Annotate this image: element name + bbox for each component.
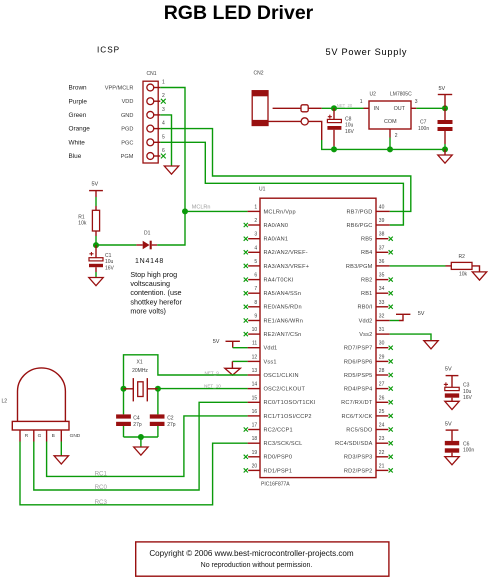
svg-text:14: 14	[252, 382, 258, 388]
svg-text:10k: 10k	[78, 221, 87, 227]
capacitor C4 plate 2	[116, 422, 131, 426]
U1 pin 11 number	[252, 341, 257, 347]
wire color label Green	[69, 112, 87, 119]
svg-text:4: 4	[254, 245, 257, 251]
ground under C6	[445, 453, 459, 465]
svg-text:5V: 5V	[92, 182, 99, 188]
U1 pin 23 number	[379, 436, 385, 442]
U1 pin label RE0/AN5/RDn	[264, 305, 302, 311]
U1 pin 10 stub	[248, 333, 260, 335]
capacitor C3 top plate	[445, 387, 459, 390]
svg-text:RD1/PSP1: RD1/PSP1	[264, 468, 293, 474]
svg-text:NET_20: NET_20	[337, 103, 353, 108]
U1 pin 19 no-connect x	[244, 455, 248, 459]
svg-text:34: 34	[379, 286, 385, 292]
svg-text:RE0/AN5/RDn: RE0/AN5/RDn	[264, 305, 302, 311]
U1 pin 23 stub	[376, 442, 388, 444]
svg-text:RC0: RC0	[95, 484, 108, 491]
U1 pin label RD3/PSP3	[344, 455, 373, 461]
wire U2 COM to rail	[389, 138, 391, 150]
LED pin R lead	[19, 430, 21, 442]
svg-text:RGB LED Driver: RGB LED Driver	[164, 2, 314, 24]
U1 pin 38 number	[379, 232, 385, 238]
svg-text:1: 1	[360, 99, 363, 105]
wire MCLR node to U1 pin1	[185, 210, 248, 212]
U1 pin 7 no-connect x	[244, 291, 248, 295]
capacitor C1 value 10u	[105, 259, 114, 265]
capacitor C4 label	[133, 415, 140, 421]
capacitor C6 label	[463, 441, 470, 447]
capacitor C8 plus sign	[328, 115, 332, 119]
CN1 pin name GND	[121, 113, 133, 119]
svg-text:26: 26	[379, 395, 385, 401]
connector CN2 label	[254, 71, 264, 77]
CN1 pin name PGC	[121, 140, 133, 146]
wire color label Orange	[69, 126, 91, 133]
svg-text:PGD: PGD	[121, 127, 133, 133]
ground under LED	[54, 456, 68, 464]
CN1 pin 2 number	[162, 93, 165, 99]
wire U1 Vdd2 to 5V	[390, 320, 399, 322]
title text	[164, 2, 314, 24]
connector CN1 label	[147, 71, 157, 77]
svg-text:Blue: Blue	[69, 153, 82, 160]
svg-text:RB2: RB2	[361, 278, 372, 284]
node crystal right junction	[155, 386, 161, 392]
svg-text:RD4/PSP4: RD4/PSP4	[344, 387, 373, 393]
connector CN1 body	[143, 81, 158, 163]
node raw supply junction	[331, 105, 337, 111]
wire color label Purple	[69, 98, 88, 105]
wire color label White	[69, 139, 86, 146]
resistor R2 value 10k	[459, 271, 468, 277]
svg-text:5V: 5V	[445, 367, 452, 373]
svg-text:10k: 10k	[459, 271, 468, 277]
U1 pin label Vdd1	[264, 346, 278, 352]
svg-text:1N4148: 1N4148	[135, 258, 164, 265]
svg-text:10u: 10u	[105, 259, 114, 265]
U1 pin label RB4	[361, 250, 372, 256]
U2 pin COM label	[384, 119, 397, 125]
U1 pin label OSC1/CLKIN	[264, 373, 299, 379]
svg-text:22: 22	[379, 450, 385, 456]
U1 pin 37 stub	[376, 251, 388, 253]
U1 pin 33 stub	[376, 306, 388, 308]
svg-text:25: 25	[379, 409, 385, 415]
ground under crystal caps	[134, 447, 148, 455]
copyright text line 1	[149, 549, 354, 558]
crystal X1 value 20MHz	[132, 368, 148, 374]
capacitor C7 value 100n	[418, 126, 429, 132]
U1 pin label Vdd2	[359, 318, 373, 324]
ground at Vss2	[424, 341, 438, 349]
svg-text:3: 3	[162, 107, 165, 113]
CN2 top pin lead 2	[308, 107, 322, 109]
note text about diode	[130, 270, 182, 316]
capacitor C3 plus sign	[444, 382, 448, 386]
svg-text:3: 3	[254, 232, 257, 238]
net label NET_20	[337, 103, 353, 108]
copyright text line 2	[201, 562, 313, 569]
CN1 pin 4 circle	[147, 125, 154, 132]
U1 pin 21 no-connect x	[389, 468, 393, 472]
svg-text:RA2/AN2/VREF-: RA2/AN2/VREF-	[264, 250, 308, 256]
CN1 pin name VDD	[122, 99, 134, 105]
svg-text:5V: 5V	[418, 311, 425, 317]
U1 pin 7 stub	[248, 292, 260, 294]
capacitor C7 plate 1	[438, 120, 453, 124]
wire C2 bottom to rail	[157, 426, 159, 437]
svg-text:10u: 10u	[463, 389, 472, 395]
svg-text:100n: 100n	[418, 126, 429, 132]
U1 pin 24 number	[379, 423, 385, 429]
svg-text:RB6/PGC: RB6/PGC	[347, 223, 373, 229]
U1 pin 26 stub	[376, 401, 388, 403]
U1 pin 27 no-connect x	[389, 387, 393, 391]
resistor R1 body	[92, 210, 99, 231]
svg-text:PGM: PGM	[121, 154, 134, 160]
U1 pin label RD0/PSP0	[264, 455, 293, 461]
svg-text:D1: D1	[144, 231, 151, 237]
U1 pin label RB7/PGD	[347, 209, 373, 215]
CN1 pin 2 stub	[153, 100, 160, 102]
U1 pin 23 no-connect x	[389, 441, 393, 445]
U1 pin 16 stub	[248, 415, 260, 417]
svg-text:20: 20	[252, 463, 258, 469]
net label RC3	[95, 499, 108, 506]
U1 pin 35 stub	[376, 279, 388, 281]
U1 pin 29 stub	[376, 360, 388, 362]
svg-text:MCLRn: MCLRn	[192, 205, 211, 211]
diode D1 value 1N4148	[135, 258, 164, 265]
svg-text:COM: COM	[384, 119, 397, 125]
U1 pin label RD6/PSP6	[344, 359, 373, 365]
svg-text:11: 11	[252, 341, 257, 347]
svg-text:OSC1/CLKIN: OSC1/CLKIN	[264, 373, 299, 379]
svg-text:28: 28	[379, 368, 385, 374]
svg-text:37: 37	[379, 245, 385, 251]
U1 pin 40 stub	[376, 210, 390, 212]
ground at Vss1	[225, 361, 241, 375]
svg-text:No reproduction without permis: No reproduction without permission.	[201, 562, 313, 569]
svg-text:RC2/CCP1: RC2/CCP1	[264, 427, 293, 433]
wire OSC1 net (U1 pin13 to crystal left)	[124, 355, 248, 415]
svg-text:RC3/SCK/SCL: RC3/SCK/SCL	[264, 441, 303, 447]
U1 pin label RC3/SCK/SCL	[264, 441, 303, 447]
wire U2 OUT to 5V node	[416, 107, 445, 109]
U2 pin 1 number	[360, 99, 363, 105]
svg-text:29: 29	[379, 354, 385, 360]
U1 pin label RD1/PSP1	[264, 468, 293, 474]
U1 pin 31 number	[379, 327, 385, 333]
svg-text:RC3: RC3	[95, 499, 108, 506]
U1 pin 22 number	[379, 450, 385, 456]
U1 pin 27 stub	[376, 388, 388, 390]
junction rail C8	[331, 146, 337, 152]
CN1 pin name PGM	[121, 154, 134, 160]
U1 pin 1 stub	[248, 210, 260, 212]
svg-text:RC4/SDI/SDA: RC4/SDI/SDA	[335, 441, 372, 447]
svg-text:1: 1	[254, 204, 257, 210]
CN1 pin 4 stub	[153, 128, 160, 130]
svg-text:5V: 5V	[213, 339, 220, 345]
svg-text:19: 19	[252, 450, 258, 456]
U1 pin label RC7/RX/DT	[341, 400, 373, 406]
svg-text:RD5/PSP5: RD5/PSP5	[344, 373, 373, 379]
capacitor C7 top lead	[444, 108, 446, 120]
U1 pin label RC6/TX/CK	[341, 414, 372, 420]
U2 pin OUT label	[394, 106, 406, 112]
svg-text:27p: 27p	[133, 422, 142, 428]
svg-text:RD2/PSP2: RD2/PSP2	[344, 468, 373, 474]
svg-text:B: B	[52, 433, 55, 439]
capacitor C8 top lead	[333, 108, 335, 119]
U1 pin 28 no-connect x	[389, 373, 393, 377]
wire RC1 net (LED B to U1 pin16)	[47, 416, 248, 477]
svg-text:R1: R1	[78, 214, 85, 220]
U1 pin 39 stub	[376, 224, 390, 226]
svg-text:RD7/PSP7: RD7/PSP7	[344, 346, 373, 352]
wire U1 Vss2 to ground	[390, 334, 431, 341]
U1 pin 24 no-connect x	[389, 427, 393, 431]
CN1 pin 1 number	[162, 80, 165, 86]
ground at R2	[472, 272, 486, 280]
U1 pin label RD7/PSP7	[344, 346, 373, 352]
svg-text:more volts): more volts)	[130, 306, 166, 315]
wire RC3 net (LED R to U1 pin18)	[20, 442, 248, 505]
svg-text:X1: X1	[137, 359, 143, 365]
U1 pin 5 stub	[248, 265, 260, 267]
svg-text:RD0/PSP0: RD0/PSP0	[264, 455, 293, 461]
wire C4 bottom to rail	[123, 426, 125, 437]
svg-text:RD6/PSP6: RD6/PSP6	[344, 359, 373, 365]
wire D1 to MCLR node	[157, 211, 185, 245]
wire CN1 pin4 PGD to U1 pin40	[160, 129, 410, 212]
U1 pin 9 no-connect x	[244, 318, 248, 322]
U2 pin 2 number	[395, 133, 398, 139]
svg-text:Vss1: Vss1	[264, 359, 277, 365]
U1 pin 3 stub	[248, 238, 260, 240]
junction rail U2 COM	[387, 146, 393, 152]
U1 pin 19 number	[252, 450, 258, 456]
svg-text:PIC16F877A: PIC16F877A	[261, 482, 290, 488]
svg-text:RC6/TX/CK: RC6/TX/CK	[341, 414, 372, 420]
resistor R1 label	[78, 214, 85, 220]
U1 pin 4 no-connect x	[244, 250, 248, 254]
svg-text:contention. (use: contention. (use	[130, 288, 181, 297]
U1 pin label RC2/CCP1	[264, 427, 293, 433]
wire CN1 pin5 PGC to U1 pin39	[160, 142, 403, 225]
copyright box	[136, 542, 389, 576]
svg-text:13: 13	[252, 368, 258, 374]
U1 pin label RB3/PGM	[346, 264, 373, 270]
supply 5V symbol (C6)	[445, 422, 459, 441]
svg-text:18: 18	[252, 436, 258, 442]
svg-text:RA5/AN4/SSn: RA5/AN4/SSn	[264, 291, 302, 297]
U1 pin 16 number	[252, 409, 258, 415]
capacitor C6 plate 2	[445, 448, 459, 452]
U1 pin 25 no-connect x	[389, 414, 393, 418]
wire U1 Vss1 to ground	[232, 360, 247, 362]
U2 pin 1 stub	[364, 107, 370, 109]
U1 pin 4 number	[254, 245, 257, 251]
svg-text:R: R	[25, 433, 29, 439]
LED pin R label	[25, 433, 29, 439]
svg-text:39: 39	[379, 218, 385, 224]
node crystal rail junction	[138, 434, 144, 440]
svg-text:U2: U2	[370, 91, 377, 97]
U1 pin label RB5	[361, 237, 372, 243]
svg-text:5: 5	[254, 259, 257, 265]
wire CN1 pin3 GND to ground	[160, 115, 171, 166]
U1 pin label RA4/T0CKI	[264, 278, 294, 284]
svg-text:RB1: RB1	[361, 291, 372, 297]
U1 pin label RA3/AN3/VREF+	[264, 264, 310, 270]
U1 pin 12 number	[252, 354, 258, 360]
svg-text:CN2: CN2	[254, 71, 264, 77]
U1 pin 1 number	[254, 204, 257, 210]
LED pin G lead	[33, 430, 35, 442]
svg-text:1: 1	[162, 80, 165, 86]
svg-text:36: 36	[379, 259, 385, 265]
regulator U2 label	[370, 91, 377, 97]
CN1 pin 5 circle	[147, 139, 154, 146]
CN1 pin 2 no-connect x	[161, 99, 166, 104]
svg-text:Copyright © 2006 www.best-micr: Copyright © 2006 www.best-microcontrolle…	[149, 549, 354, 558]
svg-text:32: 32	[379, 314, 385, 320]
svg-text:GND: GND	[121, 113, 133, 119]
svg-text:RA0/AN0: RA0/AN0	[264, 223, 289, 229]
capacitor C1 label	[105, 253, 112, 259]
U1 pin 29 no-connect x	[389, 359, 393, 363]
CN1 pin name PGD	[121, 127, 133, 133]
U1 pin 19 stub	[248, 456, 260, 458]
U1 pin label RE1/AN6/WRn	[264, 318, 304, 324]
CN1 pin 3 stub	[153, 114, 160, 116]
svg-text:38: 38	[379, 232, 385, 238]
capacitor C7 label	[420, 120, 427, 126]
U1 pin 2 number	[254, 218, 257, 224]
capacitor C1 plus sign	[89, 252, 93, 256]
net label MCLRn	[192, 205, 211, 211]
wire LED GND to ground	[60, 442, 62, 456]
svg-text:RB5: RB5	[361, 237, 372, 243]
capacitor C3 value 16V	[463, 395, 473, 401]
U1 pin 32 number	[379, 314, 385, 320]
U1 pin 38 no-connect x	[389, 237, 393, 241]
svg-text:16V: 16V	[105, 265, 115, 271]
wire OSC2 net (U1 pin14 to crystal right)	[158, 388, 248, 390]
supply 5V symbol (C3)	[445, 367, 459, 388]
svg-text:2: 2	[162, 93, 165, 99]
svg-text:16V: 16V	[463, 395, 473, 401]
wire CN2 top to U2 IN	[322, 107, 364, 109]
U1 pin 30 number	[379, 341, 385, 347]
microcontroller U1 body	[260, 198, 376, 477]
connector CN2 body	[252, 91, 268, 126]
svg-text:20MHz: 20MHz	[132, 368, 148, 374]
svg-text:shottkey herefor: shottkey herefor	[130, 297, 182, 306]
U1 pin 34 stub	[376, 292, 388, 294]
U1 pin 28 stub	[376, 374, 388, 376]
CN1 pin 5 number	[162, 134, 165, 140]
svg-text:8: 8	[254, 300, 257, 306]
svg-text:6: 6	[162, 148, 165, 154]
resistor R1 value 10k	[78, 221, 87, 227]
svg-text:VPP/MCLR: VPP/MCLR	[105, 86, 134, 92]
U1 pin label RD5/PSP5	[344, 373, 373, 379]
resistor R2 right lead	[472, 266, 480, 272]
CN1 pin 1 circle	[147, 84, 154, 91]
svg-text:Vdd1: Vdd1	[264, 346, 278, 352]
capacitor C1 bottom plate	[89, 264, 103, 267]
svg-text:C7: C7	[420, 120, 427, 126]
svg-text:L2: L2	[2, 398, 8, 404]
svg-text:35: 35	[379, 273, 385, 279]
U1 pin 13 number	[252, 368, 258, 374]
U1 pin 15 number	[252, 395, 258, 401]
U1 pin 3 number	[254, 232, 257, 238]
U1 pin 27 number	[379, 382, 385, 388]
CN2 bottom pin lead 2	[308, 121, 322, 140]
U1 pin 30 no-connect x	[389, 346, 393, 350]
U1 pin 33 number	[379, 300, 385, 306]
net label RC0	[95, 484, 108, 491]
U1 pin 14 number	[252, 382, 258, 388]
U1 pin 20 no-connect x	[244, 468, 248, 472]
resistor R1 top lead	[95, 206, 97, 210]
U1 pin 14 stub	[248, 388, 260, 390]
CN1 pin 1 stub	[153, 87, 160, 89]
U1 pin 10 number	[252, 327, 258, 333]
wire color label Brown	[69, 85, 88, 92]
U1 pin 21 number	[379, 463, 385, 469]
U1 pin 34 no-connect x	[389, 291, 393, 295]
CN1 pin 3 circle	[147, 111, 154, 118]
svg-text:2: 2	[395, 133, 398, 139]
U1 pin 28 number	[379, 368, 385, 374]
ground under C3	[445, 398, 459, 410]
svg-text:RA0/AN1: RA0/AN1	[264, 237, 289, 243]
svg-text:C2: C2	[167, 415, 174, 421]
svg-text:Stop high prog: Stop high prog	[130, 270, 177, 279]
svg-text:3: 3	[415, 99, 418, 105]
svg-text:RB4: RB4	[361, 250, 372, 256]
U1 pin 26 no-connect x	[389, 400, 393, 404]
capacitor C1 top lead	[95, 245, 97, 258]
U1 pin label RE2/AN7/CSn	[264, 332, 302, 338]
svg-text:21: 21	[379, 463, 385, 469]
svg-text:IN: IN	[374, 106, 379, 112]
svg-text:27: 27	[379, 382, 385, 388]
CN2 bottom pin lead	[268, 120, 302, 122]
svg-text:RC1: RC1	[95, 471, 108, 478]
U1 pin 30 stub	[376, 347, 388, 349]
svg-text:12: 12	[252, 354, 258, 360]
capacitor C1 value 16V	[105, 265, 115, 271]
svg-text:16V: 16V	[345, 129, 355, 135]
U1 pin label MCLRn/Vpp	[264, 209, 296, 215]
U1 pin 29 number	[379, 354, 385, 360]
U1 pin 12 stub	[248, 360, 260, 362]
U1 pin 2 no-connect x	[244, 223, 248, 227]
wire crystal right to C2	[157, 389, 159, 415]
svg-text:30: 30	[379, 341, 385, 347]
capacitor C6 value 100n	[463, 448, 474, 454]
LED L2 dome	[18, 368, 66, 422]
capacitor C1 top plate	[89, 258, 103, 261]
wire RC0 net (LED G to U1 pin15)	[34, 402, 248, 490]
